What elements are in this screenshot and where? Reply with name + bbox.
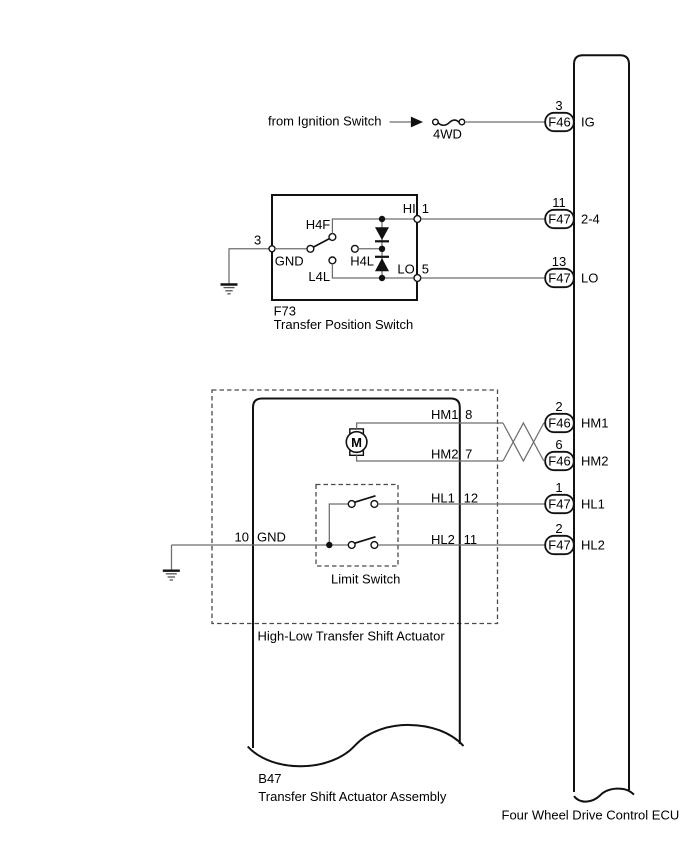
wire L4L to LO line [332, 264, 417, 278]
connector F47 pin 1 (HL1) [545, 495, 574, 513]
svg-text:Transfer Shift Actuator Assemb: Transfer Shift Actuator Assembly [258, 789, 447, 804]
svg-text:LO: LO [397, 261, 414, 276]
limit switch contact HL1 left [348, 501, 355, 508]
svg-text:11: 11 [552, 195, 566, 210]
svg-text:High-Low Transfer Shift Actuat: High-Low Transfer Shift Actuator [258, 628, 446, 643]
svg-text:L4L: L4L [308, 269, 330, 284]
svg-text:7: 7 [465, 446, 472, 461]
wire motor to HM2 line [357, 455, 503, 461]
svg-text:5: 5 [422, 261, 429, 276]
svg-text:H4L: H4L [350, 254, 374, 269]
fuse 4WD [433, 119, 465, 125]
ground G2 [163, 545, 180, 580]
svg-text:F46: F46 [548, 115, 570, 130]
svg-text:Limit Switch: Limit Switch [331, 572, 400, 587]
wire H4L to diode junction [358, 248, 382, 250]
svg-text:2: 2 [555, 399, 562, 414]
svg-text:IG: IG [581, 115, 595, 130]
wire GND to node 3 [229, 249, 272, 284]
wire LO to LO connector [421, 277, 545, 279]
svg-text:H4F: H4F [306, 217, 331, 232]
svg-text:3: 3 [555, 98, 562, 113]
wire H4F to HI line [332, 219, 417, 234]
svg-text:F47: F47 [548, 538, 570, 553]
wire HL2 to connector [378, 544, 545, 546]
switch blade (to H4F) [314, 239, 330, 247]
svg-text:F46: F46 [548, 416, 570, 431]
contact H4L [352, 245, 359, 252]
wire HL1 to connector [378, 503, 545, 505]
svg-text:F47: F47 [548, 497, 570, 512]
svg-text:1: 1 [555, 480, 562, 495]
wire HI to 2-4 connector [421, 218, 545, 220]
junction node (GND) [326, 542, 332, 548]
svg-text:3: 3 [254, 232, 261, 247]
connector F46 pin 3 (IG) [545, 113, 574, 131]
svg-text:HM1: HM1 [581, 416, 608, 431]
svg-text:F46: F46 [548, 454, 570, 469]
diode D2 [375, 257, 389, 272]
svg-text:M: M [351, 435, 362, 450]
wire node to switch pivot [275, 248, 307, 250]
contact H4F [329, 234, 336, 241]
node LO terminal [414, 275, 421, 282]
limit switch blade HL1 [355, 496, 376, 502]
node 3 terminal circle [269, 246, 275, 252]
wire motor to HM1 line [357, 423, 503, 429]
svg-text:F47: F47 [548, 271, 570, 286]
svg-text:B47: B47 [258, 771, 281, 786]
dashed box High-Low Transfer Shift Actuator [212, 390, 498, 624]
svg-text:GND: GND [275, 254, 304, 269]
F73 Transfer Position Switch box [272, 195, 417, 300]
junction node (LO line) [379, 275, 385, 281]
junction node (H4L) [379, 246, 385, 252]
svg-text:HL1: HL1 [581, 497, 605, 512]
svg-text:2-4: 2-4 [581, 212, 600, 227]
svg-text:HL2: HL2 [431, 532, 455, 547]
svg-text:HL1: HL1 [431, 491, 455, 506]
wire fuse to IG connector [465, 121, 546, 123]
Four Wheel Drive Control ECU box U1 [574, 55, 634, 801]
connector F46 pin 2 (HM1) [545, 414, 574, 432]
node HI terminal [414, 216, 421, 223]
B47 Transfer Shift Actuator Assembly outline [248, 399, 464, 767]
svg-text:10: 10 [235, 530, 249, 545]
connector F46 pin 6 (HM2) [545, 452, 574, 470]
limit switch blade HL2 [355, 537, 376, 543]
wire from ignition switch [390, 121, 411, 123]
svg-text:HM2: HM2 [431, 446, 458, 461]
diode D1 [375, 227, 389, 241]
svg-text:HM2: HM2 [581, 454, 608, 469]
svg-text:11: 11 [464, 532, 478, 547]
connector F47 pin 11 (2-4) [545, 210, 574, 228]
wire GND into limit switch [172, 544, 349, 546]
svg-text:13: 13 [552, 254, 566, 269]
svg-text:GND: GND [257, 530, 286, 545]
svg-text:6: 6 [555, 437, 562, 452]
wire junction to HL1 branch [329, 504, 348, 545]
svg-text:12: 12 [464, 491, 478, 506]
limit switch contact HL2 right [371, 542, 378, 549]
contact L4L [329, 257, 336, 264]
ground G1 [221, 285, 238, 294]
svg-text:F47: F47 [548, 212, 570, 227]
svg-text:8: 8 [465, 407, 472, 422]
wire to HM1 connector [544, 422, 545, 424]
connector F47 pin 13 (LO) [545, 269, 574, 287]
svg-text:Four Wheel Drive Control ECU: Four Wheel Drive Control ECU [502, 807, 680, 822]
junction node (HI line) [379, 216, 385, 222]
motor M1 [346, 429, 367, 455]
svg-text:2: 2 [555, 521, 562, 536]
wire diode column [381, 219, 383, 278]
limit switch contact HL1 right [371, 501, 378, 508]
svg-text:LO: LO [581, 271, 598, 286]
limit switch contact HL2 left [348, 542, 355, 549]
svg-text:HI: HI [403, 201, 416, 216]
dashed box Limit Switch [316, 485, 398, 567]
svg-text:from Ignition Switch: from Ignition Switch [268, 114, 381, 129]
svg-text:4WD: 4WD [433, 127, 462, 142]
svg-text:1: 1 [422, 201, 429, 216]
svg-text:Transfer Position Switch: Transfer Position Switch [274, 317, 414, 332]
connector F47 pin 2 (HL2) [545, 536, 574, 554]
arrow (signal direction) [411, 117, 423, 128]
svg-text:HL2: HL2 [581, 538, 605, 553]
svg-text:HM1: HM1 [431, 407, 458, 422]
switch pivot contact [307, 245, 314, 252]
twisted pair wires [503, 423, 544, 461]
